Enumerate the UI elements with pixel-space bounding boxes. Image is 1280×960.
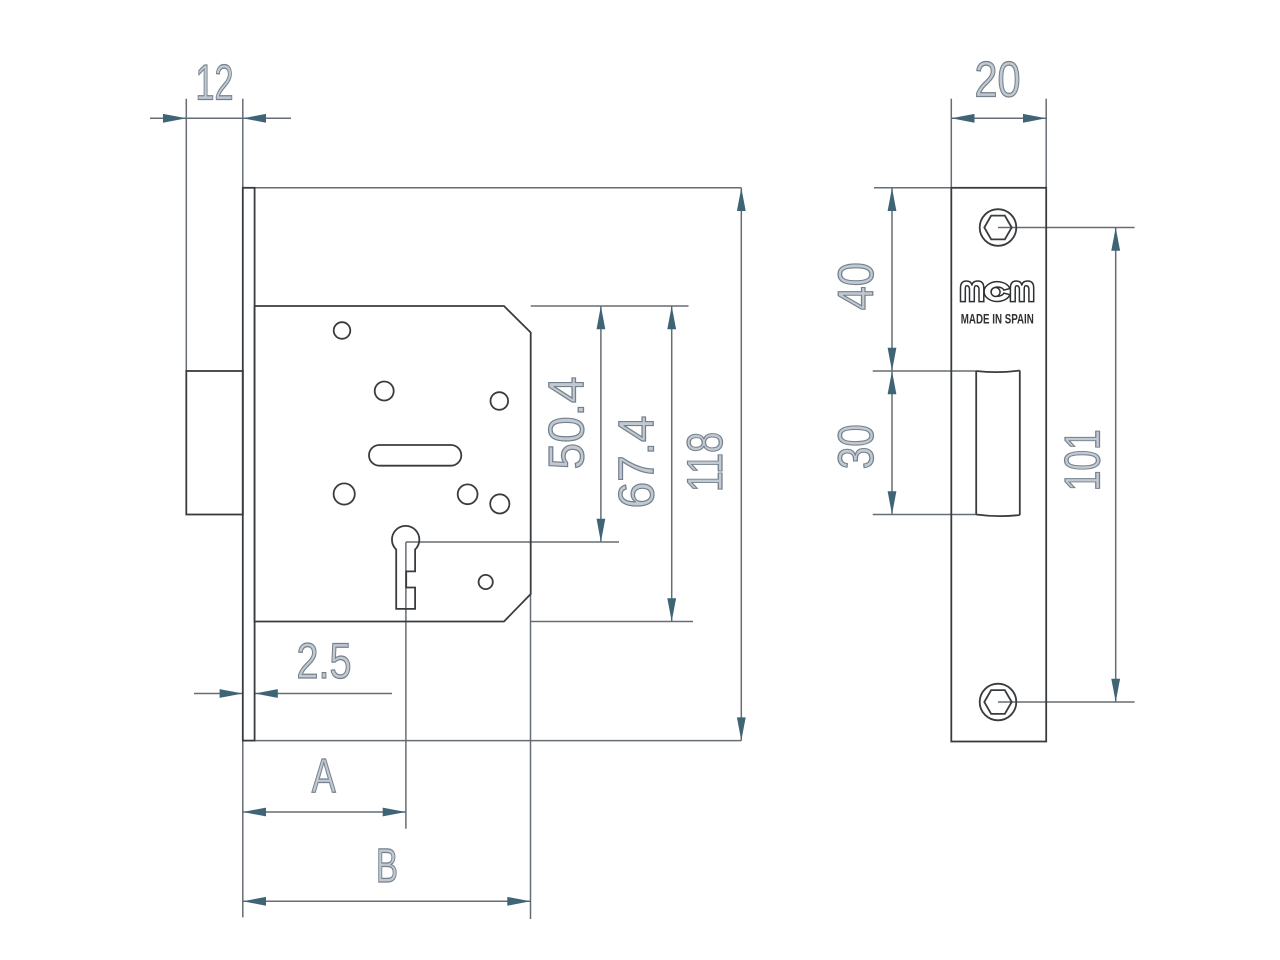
svg-text:MADE IN SPAIN: MADE IN SPAIN [961, 312, 1034, 327]
svg-text:50.4: 50.4 [539, 377, 595, 470]
svg-text:A: A [312, 750, 336, 803]
svg-text:40: 40 [828, 262, 884, 310]
svg-text:B: B [376, 840, 398, 893]
svg-text:2.5: 2.5 [297, 633, 352, 689]
svg-text:20: 20 [975, 52, 1021, 108]
svg-text:12: 12 [196, 55, 234, 111]
svg-text:118: 118 [677, 432, 733, 492]
svg-text:67.4: 67.4 [609, 416, 665, 509]
svg-text:30: 30 [828, 424, 884, 469]
svg-text:101: 101 [1055, 429, 1111, 491]
